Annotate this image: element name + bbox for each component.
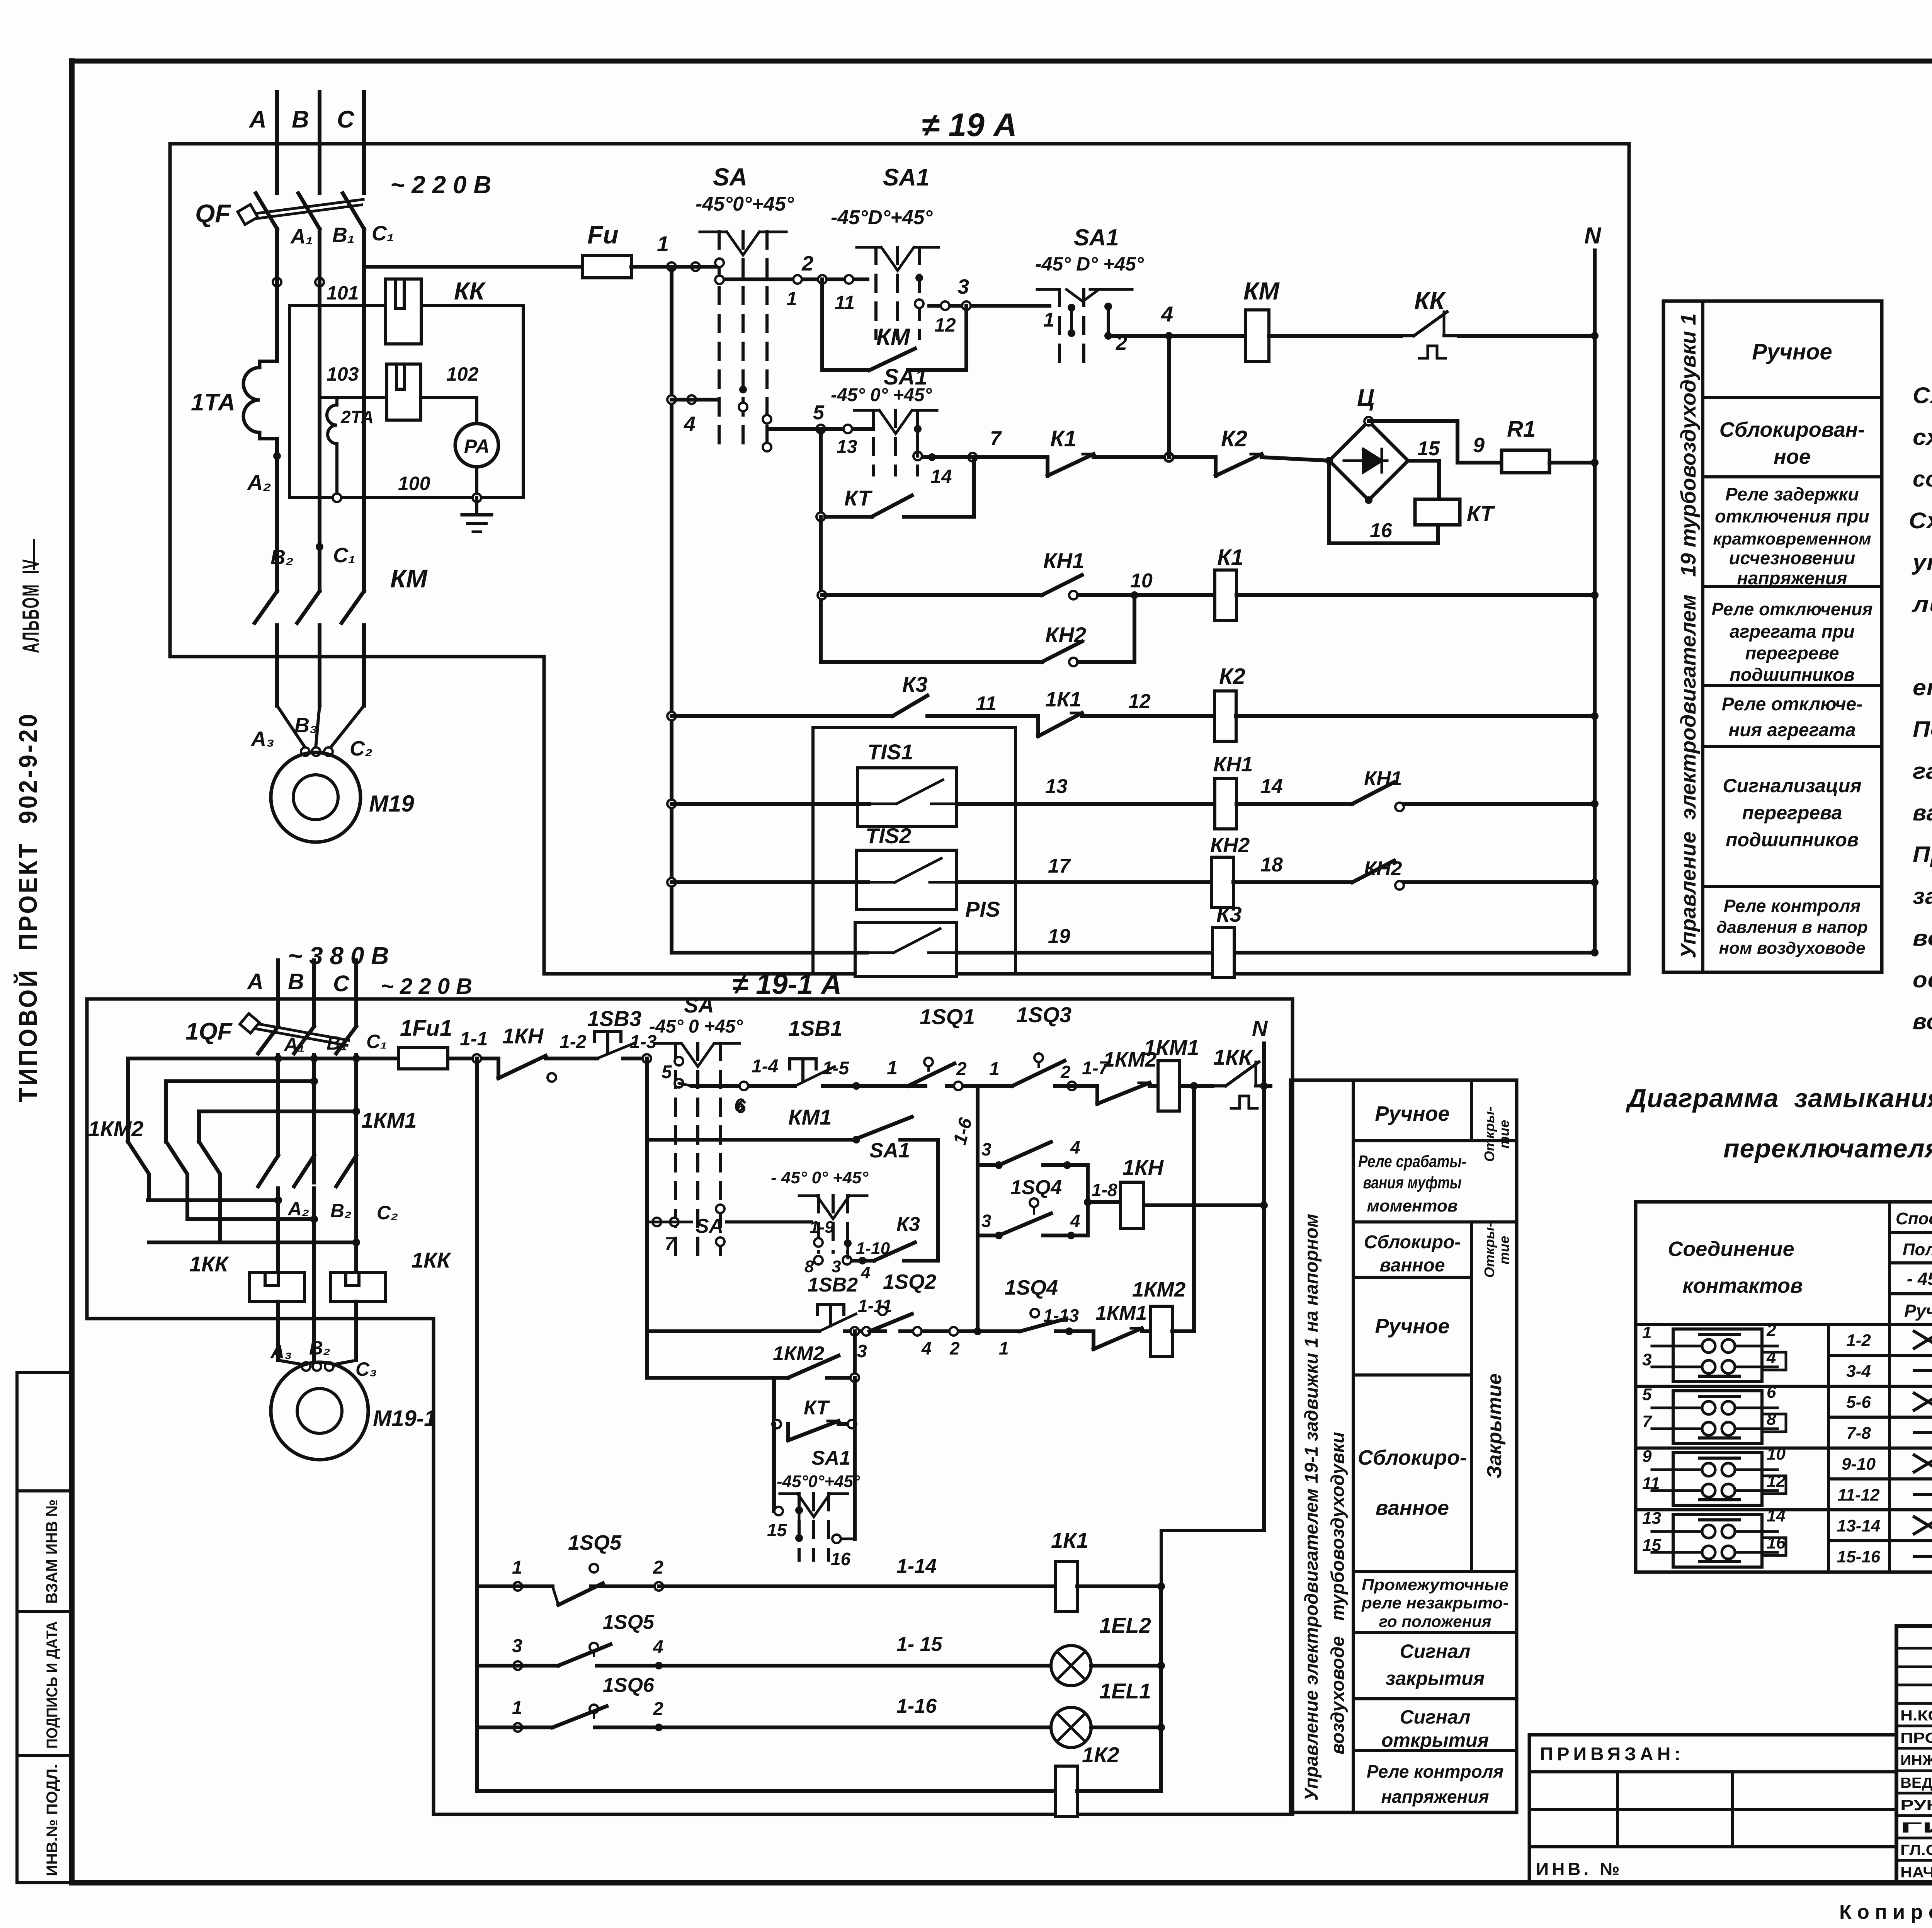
- svg-text:ванное: ванное: [1379, 1255, 1445, 1276]
- bus C lower stub: [354, 960, 358, 1026]
- crossover wires: [166, 1077, 360, 1115]
- wire row 4: [667, 395, 718, 436]
- fuse Fu: [583, 220, 662, 278]
- wire row 19: [672, 925, 1210, 953]
- svg-text:- 45 °: - 45 °: [1907, 1269, 1932, 1289]
- svg-text:5: 5: [1642, 1385, 1652, 1404]
- svg-text:≠ 19-1 А: ≠ 19-1 А: [732, 968, 842, 1000]
- svg-text:ния агрегата: ния агрегата: [1728, 720, 1855, 740]
- svg-text:-45°0°+45°: -45°0°+45°: [777, 1472, 860, 1491]
- svg-text:1SQ3: 1SQ3: [1016, 1002, 1071, 1027]
- motor M19-1: [271, 1362, 436, 1460]
- key SA1 block 1: [831, 164, 939, 338]
- svg-text:1SQ1: 1SQ1: [920, 1004, 975, 1029]
- svg-text:1-13: 1-13: [1043, 1305, 1079, 1326]
- svg-text:К о п и р о в а л : Л о г и н: К о п и р о в а л : Л о г и н о в а: [1839, 1901, 1932, 1923]
- svg-text:Н.КОНТР.: Н.КОНТР.: [1900, 1708, 1932, 1724]
- svg-text:С₃: С₃: [355, 1358, 377, 1380]
- svg-text:-45° 0° +45°: -45° 0° +45°: [831, 385, 932, 405]
- svg-text:отключения при: отключения при: [1715, 506, 1869, 526]
- svg-text:1: 1: [786, 288, 797, 310]
- svg-text:1SQ5: 1SQ5: [603, 1611, 655, 1634]
- thermal contact 1КК: [1213, 1045, 1270, 1108]
- lower schematic boundary box: [87, 999, 1293, 1814]
- node dot B2: [316, 543, 323, 551]
- contactor coil 1КМ1: [1144, 1035, 1213, 1111]
- svg-text:1-8: 1-8: [1092, 1180, 1117, 1200]
- svg-text:14: 14: [1260, 775, 1283, 798]
- bus B lower stub: [312, 960, 316, 1026]
- node 1-3: [630, 1032, 657, 1063]
- svg-text:К3: К3: [896, 1213, 920, 1235]
- branch 1-6 vertical: [949, 1086, 978, 1165]
- svg-text:К2: К2: [1219, 664, 1245, 689]
- svg-text:1SQ4: 1SQ4: [1010, 1176, 1062, 1199]
- svg-text:11-12: 11-12: [1837, 1486, 1880, 1504]
- svg-text:7: 7: [665, 1234, 676, 1254]
- node dot A2: [273, 452, 281, 460]
- svg-text:М19: М19: [369, 791, 414, 817]
- svg-text:С: С: [333, 971, 350, 996]
- switch SA (upper) dashed block: [696, 163, 794, 451]
- svg-text:SА1: SА1: [811, 1447, 850, 1469]
- svg-text:1-14: 1-14: [896, 1555, 937, 1577]
- svg-text:вается задвижка.: вается задвижка.: [1913, 800, 1932, 825]
- svg-text:ВЗАМ ИНВ №: ВЗАМ ИНВ №: [43, 1499, 61, 1604]
- bus A (upper): [275, 92, 279, 193]
- key SA1 contacts 15-16: [767, 1424, 860, 1569]
- node 2 / 1-7: [1060, 1058, 1110, 1090]
- wire КТ coil loop to bridge bottom: [1329, 461, 1438, 543]
- svg-text:В: В: [288, 969, 304, 994]
- svg-text:3: 3: [512, 1636, 522, 1656]
- svg-text:3: 3: [1642, 1350, 1651, 1369]
- svg-text:реле незакрыто-: реле незакрыто-: [1361, 1594, 1509, 1612]
- vertical from node 4 to row 14: [1167, 336, 1171, 457]
- svg-text:10: 10: [1130, 570, 1153, 592]
- svg-text:ИНВ.№ ПОДЛ.: ИНВ.№ ПОДЛ.: [44, 1764, 61, 1876]
- svg-text:лице 2.: лице 2.: [1912, 592, 1932, 617]
- contactor coil КМ: [1243, 277, 1401, 362]
- svg-text:ном воздуховоде: ном воздуховоде: [1719, 939, 1866, 958]
- svg-text:1КМ1: 1КМ1: [1095, 1302, 1147, 1324]
- contactor contact 1КМ2 (NC): [1097, 1048, 1158, 1104]
- rail 1-3 down: [645, 1058, 649, 1378]
- contact closure table SA: [1636, 1202, 1932, 1572]
- relay contact К2 (NC): [1216, 426, 1329, 476]
- svg-text:ТИПОВОЙ ПРОЕКТ 902-9-20: ТИПОВОЙ ПРОЕКТ 902-9-20: [13, 712, 42, 1102]
- svg-text:ванное: ванное: [1376, 1496, 1449, 1520]
- N rail: [1584, 223, 1602, 953]
- svg-text:К1: К1: [1050, 426, 1077, 451]
- svg-text:После того, как давление в: После того, как давление в напорном патр…: [1913, 717, 1932, 742]
- svg-text:Fu: Fu: [587, 220, 619, 249]
- svg-text:Реле отключе-: Реле отключе-: [1722, 694, 1862, 715]
- svg-text:18: 18: [1260, 854, 1283, 876]
- buses down to heaters: [278, 1200, 356, 1319]
- wire row 17: [667, 855, 1212, 887]
- bus C (upper): [362, 92, 366, 193]
- node circle bus A: [273, 278, 281, 286]
- start button 1SB1: [752, 1016, 856, 1086]
- svg-text:1: 1: [999, 1338, 1009, 1358]
- svg-text:1-2: 1-2: [560, 1032, 587, 1052]
- motor leads lower: [278, 1319, 356, 1371]
- svg-text:13: 13: [1045, 775, 1068, 798]
- svg-text:Сигнализация: Сигнализация: [1723, 775, 1861, 796]
- node after 1SB1: [852, 1057, 925, 1090]
- svg-text:4: 4: [1766, 1348, 1776, 1367]
- svg-text:А₃: А₃: [270, 1341, 292, 1363]
- svg-text:Схема управления задвижками: Схема управления задвижками 2÷4 аналогич…: [1909, 508, 1932, 533]
- limit switch 1SQ1: [908, 1004, 981, 1090]
- aux contact КН1: [1260, 767, 1599, 811]
- title диаграмма замыкания контактов переключателя SA: [1626, 1084, 1932, 1163]
- svg-text:≠ 19 А: ≠ 19 А: [922, 107, 1017, 143]
- КМ self-hold bypass loop: [822, 279, 966, 370]
- wire row 5-13: [769, 402, 873, 457]
- contact КН1 (NO) row 10: [818, 548, 1215, 599]
- svg-text:кратковременном: кратковременном: [1713, 529, 1871, 548]
- svg-text:Промежуточные: Промежуточные: [1362, 1576, 1509, 1594]
- svg-text:1ТА: 1ТА: [191, 389, 235, 416]
- svg-text:1: 1: [512, 1557, 522, 1578]
- svg-text:подшипников: подшипников: [1730, 664, 1855, 685]
- svg-text:13-14: 13-14: [1837, 1516, 1881, 1535]
- contact КН2 (NO) row: [822, 595, 1134, 666]
- svg-text:Ручн.: Ручн.: [1904, 1301, 1932, 1321]
- bottom return wire with 1К2 coil: [477, 1743, 1161, 1816]
- svg-text:SА: SА: [696, 1215, 723, 1237]
- thermal relay 1КК heater C: [330, 1248, 452, 1319]
- svg-text:7-8: 7-8: [1846, 1424, 1871, 1443]
- svg-text:открытия: открытия: [1381, 1729, 1489, 1751]
- vertical margin text Альбом IV: [18, 540, 44, 653]
- svg-text:1КМ2: 1КМ2: [773, 1343, 824, 1365]
- svg-text:SА1: SА1: [869, 1139, 910, 1162]
- svg-text:С₁: С₁: [366, 1031, 387, 1052]
- svg-text:SА1: SА1: [1074, 225, 1119, 250]
- heater КК lower (2ТА circuit): [387, 364, 421, 420]
- svg-text:С₂: С₂: [377, 1202, 398, 1224]
- svg-text:КК: КК: [454, 277, 486, 305]
- relay contact К1 (NC): [1048, 426, 1216, 476]
- svg-text:В₂: В₂: [270, 546, 294, 569]
- jog N to right rail: [1161, 1530, 1264, 1586]
- svg-text:А₃: А₃: [250, 727, 274, 750]
- svg-text:тие: тие: [1496, 1120, 1512, 1149]
- svg-text:агрегата при: агрегата при: [1730, 621, 1855, 642]
- svg-text:19: 19: [1048, 925, 1070, 948]
- svg-text:SА: SА: [713, 163, 747, 191]
- bus B continues: [318, 271, 321, 591]
- svg-text:N: N: [1584, 223, 1602, 248]
- svg-text:Соединение: Соединение: [1668, 1237, 1794, 1261]
- right rail bottom rows: [1159, 1586, 1163, 1791]
- circuit breaker 1QF: [185, 1014, 356, 1058]
- svg-text:тие: тие: [1496, 1236, 1512, 1264]
- svg-text:В₁: В₁: [332, 223, 355, 247]
- svg-text:1КМ2: 1КМ2: [1132, 1278, 1185, 1301]
- svg-text:1: 1: [1043, 309, 1054, 331]
- svg-text:1КН: 1КН: [502, 1024, 544, 1048]
- node 4: [1161, 302, 1173, 340]
- relay coil К2: [1214, 664, 1599, 741]
- svg-text:1: 1: [657, 231, 669, 256]
- svg-text:1ЕL1: 1ЕL1: [1099, 1679, 1151, 1703]
- svg-text:КН1: КН1: [1043, 548, 1084, 573]
- limit switch 1SQ4 upper contact: [978, 1165, 1088, 1239]
- svg-text:напряжения: напряжения: [1381, 1787, 1489, 1807]
- temperature switch ТIS1: [857, 740, 957, 827]
- svg-text:SА: SА: [684, 993, 714, 1017]
- svg-text:2: 2: [949, 1338, 960, 1358]
- svg-text:Схема управления турбовоздух: Схема управления турбовоздуходувкой 2÷4 …: [1913, 383, 1932, 408]
- temperature switch ТIS2: [856, 824, 957, 909]
- svg-text:16: 16: [1767, 1533, 1786, 1552]
- svg-text:воздуходувки и действии мак: воздуходувки и действии максимальной ток…: [1913, 1009, 1932, 1034]
- relay contact 1К1 (NC): [1038, 688, 1214, 736]
- svg-text:КК: КК: [1414, 287, 1446, 315]
- svg-text:1SB1: 1SB1: [788, 1016, 842, 1040]
- svg-text:1QF: 1QF: [185, 1018, 233, 1045]
- svg-text:ется пуск турбовоздуходувки: ется пуск турбовоздуходувки на закрытую …: [1913, 675, 1932, 700]
- left rail from node 1: [670, 267, 673, 953]
- wire row 2 (nodes 1,11): [726, 252, 867, 313]
- svg-text:Реле контроля: Реле контроля: [1724, 896, 1861, 916]
- svg-text:К3: К3: [1216, 902, 1242, 926]
- svg-text:М19-1: М19-1: [373, 1406, 436, 1431]
- svg-text:согласно таблице 1.: согласно таблице 1.: [1913, 466, 1932, 492]
- aux contact 1КМ2 row: [647, 1343, 859, 1382]
- stop button 1SB2: [647, 1274, 892, 1331]
- svg-text:1SQ5: 1SQ5: [568, 1531, 622, 1554]
- svg-text:Сигнал: Сигнал: [1400, 1640, 1470, 1662]
- svg-text:-45°D°+45°: -45°D°+45°: [831, 206, 933, 229]
- svg-text:14: 14: [930, 466, 952, 487]
- wire row 13: [667, 775, 1215, 808]
- svg-text:1: 1: [1642, 1323, 1651, 1342]
- svg-text:воздуходувка. Схема осуществ: воздуходувка. Схема осуществляет автомат…: [1913, 926, 1932, 951]
- svg-text:1: 1: [989, 1059, 1000, 1079]
- bus A lower stub: [276, 960, 280, 1026]
- svg-text:3: 3: [981, 1139, 992, 1159]
- notes paragraph: [1909, 341, 1932, 1034]
- svg-text:1КК: 1КК: [1213, 1045, 1253, 1069]
- wire bridge top to 9/R1: [1369, 421, 1502, 463]
- contactor 1КМ2 contacts (reversing): [88, 1058, 220, 1242]
- svg-text:КТ: КТ: [844, 486, 873, 510]
- svg-text:2: 2: [801, 252, 813, 275]
- relay coil КН2: [1210, 834, 1352, 907]
- svg-text:А₁: А₁: [283, 1034, 305, 1055]
- svg-text:1КН: 1КН: [1122, 1155, 1164, 1179]
- svg-text:15: 15: [767, 1520, 787, 1540]
- phase joins A2 B2 C2: [148, 1196, 398, 1246]
- svg-text:ВЕД. ИНЖ: ВЕД. ИНЖ: [1900, 1775, 1932, 1791]
- wire row 14 output: [923, 427, 1048, 487]
- svg-text:схеме управления турбовоздух: схеме управления турбовоздуходувкой 1 с …: [1913, 425, 1932, 450]
- svg-text:С₂: С₂: [350, 737, 373, 760]
- svg-text:10: 10: [1767, 1445, 1786, 1463]
- svg-text:А: А: [248, 106, 267, 133]
- pressure switch РIS: [855, 897, 1000, 977]
- node circle bus B: [315, 278, 324, 286]
- contactor contact 1КМ1 (NC): [1094, 1302, 1147, 1349]
- motor M19-1 leads: [278, 1140, 356, 1210]
- svg-text:давления в напор: давления в напор: [1716, 918, 1868, 937]
- svg-text:1КК: 1КК: [189, 1252, 230, 1276]
- svg-text:Реле срабаты-: Реле срабаты-: [1358, 1152, 1466, 1171]
- svg-text:16: 16: [831, 1549, 851, 1569]
- svg-text:12: 12: [1767, 1472, 1786, 1491]
- svg-text:задвижка и после этого ост: задвижка и после этого останавливается т…: [1913, 884, 1932, 909]
- svg-text:17: 17: [1048, 855, 1071, 877]
- svg-text:моментов: моментов: [1367, 1196, 1458, 1215]
- svg-text:1Fu1: 1Fu1: [400, 1016, 452, 1041]
- svg-text:подшипников: подшипников: [1726, 829, 1859, 851]
- svg-text:Сигнал: Сигнал: [1400, 1706, 1470, 1728]
- svg-text:2: 2: [1060, 1062, 1071, 1082]
- contact К3 (NO) row 11-12: [667, 672, 1038, 720]
- bus B (upper): [318, 92, 321, 193]
- svg-text:101: 101: [327, 282, 359, 304]
- relay coil К3: [1213, 902, 1599, 978]
- relay coil 1К1: [1051, 1528, 1165, 1611]
- svg-text:А₂: А₂: [287, 1198, 309, 1220]
- svg-text:1-2: 1-2: [1846, 1331, 1871, 1350]
- current transformer 1ТА: [191, 361, 277, 439]
- fuse 1Fu1: [399, 1016, 498, 1069]
- svg-text:100: 100: [398, 473, 430, 494]
- timing relay coil КТ: [1415, 499, 1495, 526]
- svg-text:1К1: 1К1: [1045, 688, 1081, 711]
- relay coil 1КН: [1084, 1155, 1268, 1229]
- svg-text:управления задвижкой 1 с изм: управления задвижкой 1 с изменениями сог…: [1912, 550, 1932, 575]
- svg-text:4: 4: [921, 1338, 932, 1358]
- svg-text:КТ: КТ: [804, 1397, 830, 1419]
- svg-text:С₁: С₁: [372, 222, 394, 245]
- svg-text:вания муфты: вания муфты: [1363, 1173, 1462, 1192]
- svg-text:переключателя SА: переключателя SА: [1723, 1134, 1932, 1163]
- svg-text:КМ: КМ: [876, 324, 911, 350]
- svg-text:N: N: [1252, 1016, 1268, 1040]
- contactor coil 1КМ2: [1132, 1086, 1194, 1356]
- svg-text:В₁: В₁: [327, 1032, 347, 1054]
- svg-text:НАЧ. ОТД: НАЧ. ОТД: [1900, 1865, 1932, 1881]
- svg-text:Реле контроля: Реле контроля: [1367, 1761, 1504, 1782]
- wire feeder row from C1 to fuse: [364, 265, 583, 269]
- row 1-15: [477, 1611, 1051, 1670]
- svg-text:А₂: А₂: [247, 470, 271, 495]
- svg-text:12: 12: [934, 314, 956, 336]
- svg-text:КН2: КН2: [1210, 834, 1250, 857]
- svg-text:1К1: 1К1: [1051, 1528, 1088, 1552]
- привязан block: [1529, 1735, 1896, 1883]
- main title block: [1896, 1626, 1932, 1883]
- svg-text:13: 13: [837, 437, 857, 457]
- feeder row lower: [128, 1055, 399, 1140]
- stop button 1SB3: [587, 1006, 647, 1058]
- svg-text:1-9: 1-9: [810, 1218, 834, 1237]
- svg-text:РУК. ГР.: РУК. ГР.: [1900, 1797, 1932, 1814]
- svg-text:2: 2: [956, 1059, 967, 1079]
- wire row 3 (nodes 3,12): [929, 275, 1049, 336]
- svg-text:~ 2 2 0 В: ~ 2 2 0 В: [381, 974, 472, 999]
- svg-text:1КМ1: 1КМ1: [1144, 1035, 1199, 1060]
- svg-text:Диаграмма замыкания контакто: Диаграмма замыкания контактов: [1626, 1084, 1932, 1113]
- svg-text:6: 6: [736, 1097, 746, 1117]
- svg-text:5-6: 5-6: [1846, 1393, 1871, 1412]
- svg-text:1SQ4: 1SQ4: [1005, 1276, 1058, 1299]
- wire row to КМ coil: [1113, 334, 1246, 338]
- svg-text:А: А: [247, 969, 264, 994]
- limit switch 1SQ3 upper contact: [981, 1002, 1071, 1086]
- row 1-14: [477, 1531, 1056, 1605]
- svg-text:1- 15: 1- 15: [896, 1633, 943, 1656]
- svg-text:воздуховоде турбовоздуходувк: воздуховоде турбовоздуходувки: [1328, 1432, 1348, 1754]
- svg-text:-45° 0 +45°: -45° 0 +45°: [649, 1016, 743, 1037]
- svg-text:ТIS1: ТIS1: [867, 740, 913, 764]
- N rail lower: [1252, 1016, 1268, 1530]
- svg-text:~ 3 8 0 В: ~ 3 8 0 В: [288, 942, 389, 970]
- svg-text:- 45° 0° +45°: - 45° 0° +45°: [771, 1168, 869, 1187]
- svg-text:103: 103: [327, 363, 359, 385]
- limit switch 1SQ2: [850, 1235, 982, 1378]
- svg-text:Откры-: Откры-: [1481, 1223, 1497, 1278]
- svg-text:9: 9: [1473, 434, 1485, 457]
- svg-text:1SQ2: 1SQ2: [883, 1270, 936, 1293]
- svg-text:Способ фиксации „ С “: Способ фиксации „ С “: [1896, 1209, 1932, 1228]
- svg-text:перегрева: перегрева: [1742, 802, 1842, 824]
- svg-text:1-4: 1-4: [752, 1056, 778, 1077]
- svg-text:ГИП: ГИП: [1900, 1820, 1932, 1836]
- relay coil К1: [1215, 545, 1599, 620]
- svg-text:КТ: КТ: [1467, 501, 1495, 526]
- svg-text:14: 14: [1767, 1506, 1786, 1525]
- svg-text:SА1: SА1: [883, 164, 930, 191]
- bus A continues: [275, 271, 279, 361]
- svg-text:12: 12: [1128, 690, 1151, 713]
- bus C continues: [362, 271, 366, 591]
- svg-text:В: В: [292, 106, 309, 133]
- limit switch 1SQ3 lower contact: [978, 1137, 1088, 1169]
- svg-text:РIS: РIS: [965, 897, 1000, 921]
- svg-text:11: 11: [835, 292, 855, 313]
- svg-text:При повороте ключа в полож: При повороте ключа в положение „ откл “ …: [1913, 842, 1932, 867]
- svg-text:перегреве: перегреве: [1745, 643, 1839, 663]
- thermal relay 1КК heater A: [189, 1252, 304, 1319]
- table управление электродвигателем 19-1 задвижки 1: [1291, 1080, 1517, 1812]
- svg-text:6: 6: [1767, 1383, 1776, 1402]
- svg-text:1ЕL2: 1ЕL2: [1099, 1613, 1151, 1637]
- svg-text:3: 3: [857, 1341, 867, 1361]
- svg-text:8: 8: [1767, 1410, 1776, 1429]
- signal lamp 1EL1: [1051, 1679, 1165, 1748]
- svg-text:1КМ2: 1КМ2: [88, 1116, 143, 1141]
- rail 1-1 down: [475, 1058, 479, 1791]
- svg-text:1К2: 1К2: [1082, 1743, 1119, 1767]
- svg-text:1-16: 1-16: [896, 1695, 937, 1717]
- svg-text:Сблокиро-: Сблокиро-: [1358, 1446, 1467, 1469]
- svg-text:напряжения: напряжения: [1737, 568, 1847, 588]
- timing relay КТ contact: [816, 429, 974, 521]
- svg-text:Сблокиро-: Сблокиро-: [1364, 1232, 1461, 1252]
- svg-text:В₃: В₃: [294, 714, 318, 737]
- svg-text:7: 7: [990, 427, 1002, 450]
- svg-text:ГЛ.СПЕЦ.: ГЛ.СПЕЦ.: [1900, 1842, 1932, 1858]
- TIS enclosure box: [813, 727, 1015, 974]
